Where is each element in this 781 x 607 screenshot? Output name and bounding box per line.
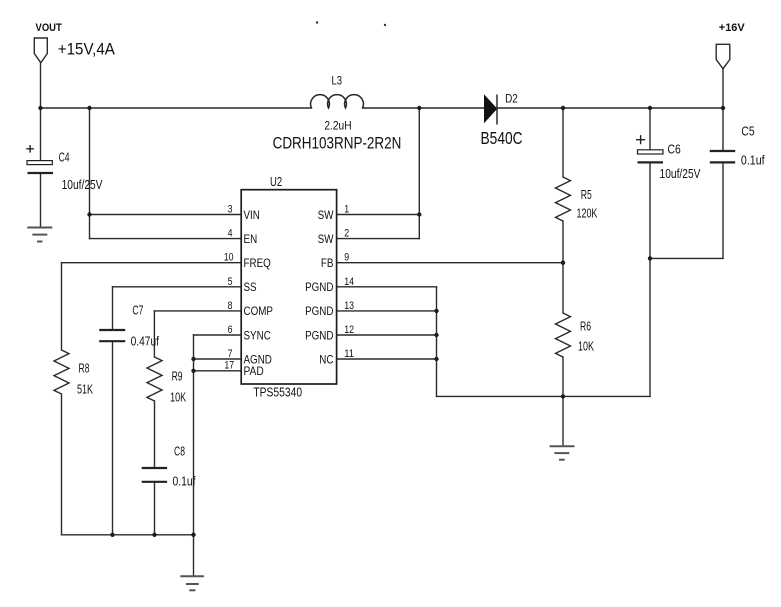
node FB / R5R6 bbox=[561, 261, 565, 265]
svg-text:R8: R8 bbox=[79, 361, 90, 375]
inductor L3 bbox=[311, 95, 364, 108]
svg-text:PGND: PGND bbox=[305, 328, 333, 342]
svg-text:D2: D2 bbox=[505, 94, 518, 106]
svg-text:C6: C6 bbox=[668, 142, 681, 156]
svg-text:10K: 10K bbox=[170, 390, 186, 404]
wire bottom right rail bbox=[437, 395, 651, 397]
svg-text:C4: C4 bbox=[59, 150, 70, 164]
node C6C5 link bbox=[648, 256, 652, 260]
wire C6 top lead bbox=[649, 108, 651, 150]
wire SS pin5 bbox=[113, 286, 242, 288]
node NC11 bbox=[434, 357, 438, 361]
svg-text:10uf/25V: 10uf/25V bbox=[62, 178, 103, 192]
ground below AGND line bbox=[180, 576, 204, 590]
wire AGND pin7 bbox=[194, 358, 242, 360]
svg-text:12: 12 bbox=[344, 324, 354, 336]
node VIN tap bbox=[87, 212, 91, 216]
svg-text:C8: C8 bbox=[174, 445, 185, 459]
svg-text:11: 11 bbox=[344, 348, 354, 360]
svg-text:1: 1 bbox=[344, 204, 349, 216]
capacitor C4 bbox=[26, 145, 53, 173]
pin names right bbox=[305, 208, 334, 366]
svg-text:FB: FB bbox=[321, 256, 334, 270]
wire main rail left of L3 bbox=[41, 107, 312, 109]
svg-text:17: 17 bbox=[224, 360, 234, 372]
node bottom rail / C8 bbox=[152, 533, 156, 537]
svg-text:7: 7 bbox=[228, 348, 233, 360]
wire C6 bottom lead bbox=[649, 163, 651, 396]
node AGND tap bbox=[191, 357, 195, 361]
op-amp U2 (IC body TPS55340) bbox=[241, 190, 336, 384]
svg-text:PGND: PGND bbox=[305, 280, 333, 294]
wire R5 bottom to R6 top bbox=[562, 221, 564, 313]
svg-text:NC: NC bbox=[319, 352, 333, 366]
wire C6-C5 bottom link bbox=[650, 257, 723, 259]
node PAD tap bbox=[191, 369, 195, 373]
svg-text:0.1uf: 0.1uf bbox=[741, 154, 765, 168]
resistor R8 bbox=[54, 350, 69, 394]
capacitor C8 bbox=[142, 468, 167, 482]
wire NC pin11 bbox=[337, 358, 437, 360]
wire C7 bottom lead bbox=[112, 342, 114, 535]
svg-text:PAD: PAD bbox=[244, 364, 264, 378]
svg-text:10K: 10K bbox=[578, 340, 594, 354]
svg-text:R9: R9 bbox=[172, 370, 183, 384]
svg-text:51K: 51K bbox=[77, 382, 93, 396]
node rail/R5 bbox=[561, 106, 565, 110]
svg-text:14: 14 bbox=[344, 276, 354, 288]
ground below R6 bbox=[550, 446, 575, 460]
wire SW pin1 bbox=[337, 214, 420, 216]
node R6 bottom rail bbox=[561, 394, 565, 398]
pin numbers left bbox=[224, 204, 235, 372]
wire PGND pin14 bbox=[337, 286, 437, 288]
pin numbers right bbox=[344, 204, 354, 361]
wire EN pin4 bbox=[90, 238, 242, 240]
svg-text:C7: C7 bbox=[132, 304, 143, 318]
resistor R6 bbox=[556, 313, 571, 357]
svg-text:8: 8 bbox=[228, 300, 233, 312]
svg-text:4: 4 bbox=[228, 228, 233, 240]
wire C7 top lead bbox=[112, 287, 114, 329]
node bottom rail / gnd line bbox=[191, 533, 195, 537]
node rail/SW bbox=[417, 106, 421, 110]
wire branch x=89.5 from rail to EN bbox=[89, 108, 91, 239]
svg-text:R5: R5 bbox=[581, 188, 592, 202]
svg-text:FREQ: FREQ bbox=[244, 256, 271, 270]
svg-text:5: 5 bbox=[228, 276, 233, 288]
svg-text:13: 13 bbox=[344, 300, 354, 312]
wire FB pin9 bbox=[337, 262, 563, 264]
wire SW vertical to rail bbox=[418, 108, 420, 239]
wire R8 top lead bbox=[61, 263, 63, 350]
wire bottom left rail bbox=[62, 534, 194, 536]
svg-text:0.1uf: 0.1uf bbox=[173, 475, 196, 489]
capacitor C7 bbox=[99, 330, 125, 341]
svg-text:SW: SW bbox=[318, 208, 334, 222]
svg-text:C5: C5 bbox=[741, 125, 754, 139]
wire VIN pin3 bbox=[90, 214, 242, 216]
svg-text:U2: U2 bbox=[270, 175, 282, 189]
wire VOUT drop bbox=[40, 63, 42, 108]
svg-text:0.47uf: 0.47uf bbox=[131, 334, 160, 348]
resistor R9 bbox=[147, 357, 162, 401]
svg-text:10: 10 bbox=[224, 252, 234, 264]
speck top middle left bbox=[316, 21, 318, 23]
node rail/VOUT bbox=[38, 106, 42, 110]
wire R9 top lead bbox=[153, 311, 155, 357]
speck top middle right bbox=[384, 24, 386, 26]
node rail/+16V bbox=[721, 106, 725, 110]
svg-text:120K: 120K bbox=[577, 206, 598, 220]
svg-text:VIN: VIN bbox=[244, 208, 260, 222]
svg-text:CDRH103RNP-2R2N: CDRH103RNP-2R2N bbox=[273, 135, 402, 153]
wire SW pin2 bbox=[337, 238, 420, 240]
resistor R5 bbox=[556, 177, 571, 221]
wire sync/agnd vertical to ground bbox=[193, 335, 195, 575]
node rail/branch89 bbox=[87, 106, 91, 110]
wire SYNC pin6 bbox=[194, 334, 242, 336]
svg-text:PGND: PGND bbox=[305, 304, 333, 318]
svg-text:2.2uH: 2.2uH bbox=[324, 118, 351, 132]
diode D2 bbox=[485, 95, 498, 125]
capacitor C5 bbox=[710, 151, 735, 162]
wire C4 top lead bbox=[40, 108, 42, 161]
capacitor C6 bbox=[636, 135, 663, 162]
svg-text:2: 2 bbox=[344, 228, 349, 240]
pin names left bbox=[244, 208, 274, 378]
connector VOUT bbox=[34, 38, 47, 63]
ground below C4 bbox=[27, 228, 52, 242]
wire C8 bottom lead bbox=[154, 483, 156, 535]
wire C5 top lead bbox=[722, 108, 724, 150]
wire R8 bottom lead bbox=[61, 394, 63, 535]
svg-text:EN: EN bbox=[244, 232, 258, 246]
svg-text:6: 6 bbox=[228, 324, 233, 336]
svg-text:10uf/25V: 10uf/25V bbox=[660, 167, 702, 181]
wire pgnd vertical x=436.5 bbox=[436, 287, 438, 397]
svg-text:+15V,4A: +15V,4A bbox=[58, 41, 115, 59]
wire C5 bottom lead bbox=[722, 163, 724, 258]
node rail/C6 bbox=[648, 106, 652, 110]
wire R9 to C8 bbox=[154, 401, 156, 467]
wire PGND pin13 bbox=[337, 310, 437, 312]
svg-text:L3: L3 bbox=[332, 74, 343, 88]
wire R6 bottom lead to ground bbox=[562, 357, 564, 446]
wire COMP pin8 bbox=[154, 310, 241, 312]
wire PAD pin17 bbox=[194, 370, 242, 372]
node bottom rail / C7 bbox=[110, 533, 114, 537]
svg-text:+16V: +16V bbox=[719, 22, 746, 34]
svg-text:COMP: COMP bbox=[244, 304, 274, 318]
svg-text:VOUT: VOUT bbox=[36, 22, 63, 34]
wire PGND pin12 bbox=[337, 334, 437, 336]
wire main rail right of L3 bbox=[363, 107, 724, 109]
wire R5 top lead bbox=[562, 108, 564, 177]
svg-text:TPS55340: TPS55340 bbox=[253, 385, 302, 400]
svg-text:SS: SS bbox=[244, 280, 257, 294]
node PGND12 bbox=[434, 333, 438, 337]
svg-text:9: 9 bbox=[344, 252, 349, 264]
connector +16V bbox=[716, 44, 730, 69]
node SW1 tap bbox=[417, 212, 421, 216]
svg-text:3: 3 bbox=[228, 204, 233, 216]
svg-text:B540C: B540C bbox=[481, 129, 523, 148]
wire C4 bottom lead to ground bbox=[40, 173, 42, 226]
svg-text:R6: R6 bbox=[580, 320, 591, 334]
svg-text:SW: SW bbox=[318, 232, 334, 246]
wire +16V drop bbox=[722, 69, 724, 108]
wire FREQ pin10 bbox=[62, 262, 242, 264]
svg-text:SYNC: SYNC bbox=[244, 328, 271, 342]
node PGND13 bbox=[434, 309, 438, 313]
